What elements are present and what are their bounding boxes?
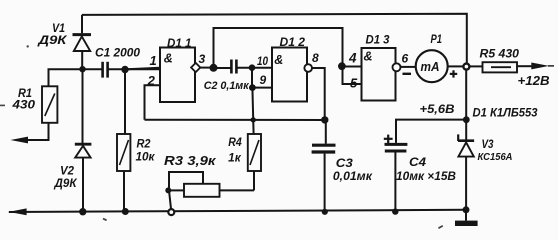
svg-text:+12В: +12В bbox=[518, 74, 550, 88]
svg-text:10: 10 bbox=[257, 54, 268, 68]
svg-text:R2: R2 bbox=[137, 139, 152, 151]
svg-text:V1: V1 bbox=[52, 23, 65, 35]
svg-text:D1 1: D1 1 bbox=[167, 38, 192, 50]
svg-text:R1: R1 bbox=[18, 88, 32, 100]
svg-text:R3 3,9к: R3 3,9к bbox=[164, 154, 216, 168]
svg-text:3: 3 bbox=[199, 52, 206, 66]
svg-text:mA: mA bbox=[421, 59, 440, 74]
svg-text:10мк ×15В: 10мк ×15В bbox=[396, 171, 456, 183]
svg-text:9: 9 bbox=[260, 73, 267, 87]
svg-text:C4: C4 bbox=[409, 157, 427, 169]
svg-text:Д9К: Д9К bbox=[37, 35, 67, 47]
svg-text:V3: V3 bbox=[482, 139, 495, 151]
svg-text:&: & bbox=[274, 53, 283, 67]
svg-text:Д9К: Д9К bbox=[53, 178, 77, 190]
svg-text:10к: 10к bbox=[136, 152, 156, 164]
svg-text:5: 5 bbox=[350, 76, 358, 91]
svg-text:D1 К1ЛБ553: D1 К1ЛБ553 bbox=[473, 107, 539, 119]
svg-text:1к: 1к bbox=[228, 153, 242, 165]
svg-text:R5 430: R5 430 bbox=[480, 47, 520, 61]
svg-text:8: 8 bbox=[312, 51, 319, 65]
svg-text:V2: V2 bbox=[60, 166, 75, 178]
svg-text:D1 2: D1 2 bbox=[280, 37, 306, 49]
svg-text:&: & bbox=[164, 52, 173, 66]
svg-text:C3: C3 bbox=[336, 158, 354, 170]
svg-text:0,01мк: 0,01мк bbox=[333, 171, 373, 183]
svg-text:R4: R4 bbox=[228, 137, 242, 149]
svg-text:C1 2000: C1 2000 bbox=[95, 48, 141, 60]
svg-text:+5,6В: +5,6В bbox=[420, 104, 455, 116]
svg-text:КС156А: КС156А bbox=[478, 151, 513, 163]
svg-text:2: 2 bbox=[147, 73, 156, 88]
svg-text:1: 1 bbox=[150, 53, 157, 68]
svg-text:6: 6 bbox=[402, 52, 409, 66]
svg-text:C2 0,1мк: C2 0,1мк bbox=[204, 80, 250, 92]
svg-text:430: 430 bbox=[11, 100, 35, 112]
svg-text:&: & bbox=[364, 50, 373, 64]
svg-text:4: 4 bbox=[348, 51, 357, 66]
svg-text:P1: P1 bbox=[431, 34, 443, 46]
svg-text:D1 3: D1 3 bbox=[366, 35, 391, 47]
